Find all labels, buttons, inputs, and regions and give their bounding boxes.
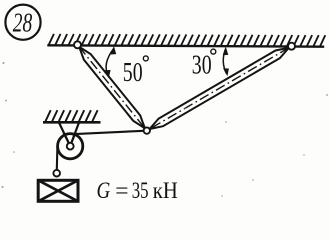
50 deg angle arc xyxy=(105,46,117,79)
svg-text:G = 35 кН: G = 35 кН xyxy=(97,178,178,204)
hook ring xyxy=(53,170,60,177)
svg-text:50: 50 xyxy=(123,56,143,87)
right ceiling pin xyxy=(288,43,295,50)
wall bracket line xyxy=(43,121,101,124)
joint pin xyxy=(144,127,150,133)
problem number circle 28 xyxy=(5,5,40,40)
rope vertical from pulley to hook xyxy=(56,146,59,170)
left ceiling pin xyxy=(74,41,81,48)
wall bracket hatching xyxy=(46,110,98,121)
weight box with X xyxy=(38,180,78,201)
pulley axle xyxy=(67,143,74,150)
30 deg angle arc xyxy=(223,46,229,76)
pulley wheel xyxy=(58,134,83,159)
svg-text:30: 30 xyxy=(192,49,212,80)
ceiling hatching xyxy=(49,34,326,47)
pulley support lines inside xyxy=(64,132,76,146)
rope horizontal from pulley to joint xyxy=(72,131,144,134)
pulley support V xyxy=(59,123,79,146)
ceiling line xyxy=(47,45,324,46)
right rod (30 deg) xyxy=(150,48,289,129)
svg-text:28: 28 xyxy=(13,7,33,37)
scan noise dots xyxy=(2,62,328,197)
left rod (50 deg) xyxy=(79,47,145,129)
